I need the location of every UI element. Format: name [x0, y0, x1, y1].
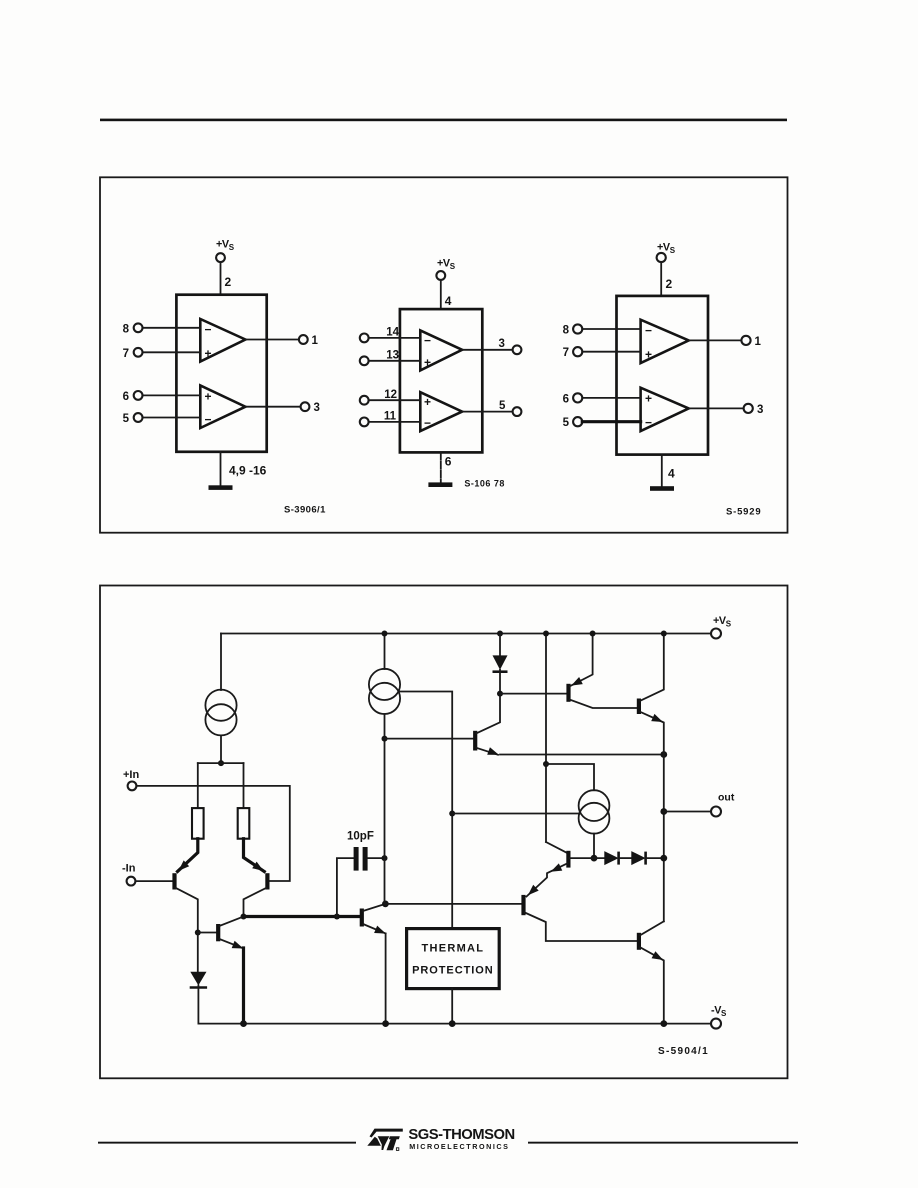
wire pin 5 to A2 inverting input: [143, 417, 201, 419]
node: Q3 emitter on rail: [240, 1020, 247, 1027]
node: I3 on diode string: [591, 855, 598, 862]
node: on output column: [660, 751, 667, 758]
ground (diagram 3): [650, 486, 674, 491]
arrow Q1 emitter: [176, 860, 189, 873]
svg-text:14: 14: [386, 327, 399, 339]
svg-text:1: 1: [755, 336, 762, 348]
svg-text:−: −: [205, 413, 212, 427]
svg-text:4: 4: [668, 467, 675, 481]
wire +In to Q2 base (over the top): [136, 786, 289, 881]
transistor T7 base bar: [521, 895, 525, 915]
arrow T3 emitter: [487, 747, 500, 758]
pin 3 terminal: [744, 404, 753, 413]
resistor R2: [238, 808, 250, 839]
wire T7 collector to T8 base: [525, 913, 637, 942]
pin 5 terminal: [134, 413, 143, 422]
svg-text:−: −: [645, 416, 652, 430]
wire Q2 collector: [244, 888, 267, 917]
pin 12 terminal: [360, 396, 369, 405]
current source I3: [579, 790, 610, 821]
pin 7 terminal: [573, 347, 582, 356]
wire out: [664, 811, 712, 813]
terminal +Vs: [711, 629, 721, 639]
wire T3 collector: [476, 694, 500, 734]
wire R2 to Q2 emitter: [244, 839, 265, 872]
wire T8 emitter to rail: [640, 947, 664, 1023]
wire Q3 collector: [219, 917, 243, 927]
svg-text:3: 3: [499, 338, 505, 350]
node: Q4 collector: [382, 901, 389, 908]
wire T5 collector to T9 base: [570, 700, 637, 708]
svg-text:+: +: [424, 395, 431, 409]
svg-text:-In: -In: [122, 863, 136, 875]
svg-text:S-3906/1: S-3906/1: [284, 505, 326, 516]
svg-text:+: +: [645, 348, 652, 362]
wire Q3 emitter to -Vs rail (bold): [242, 948, 245, 1024]
svg-text:+: +: [205, 390, 212, 404]
wire pin 12 to B2 non-inverting input: [369, 399, 421, 401]
wire Q4 collector to T7 base: [385, 903, 521, 905]
node: C1 on Q4 collector line: [382, 855, 388, 861]
capacitor C1 10pF: [354, 847, 359, 871]
node: Q2 collector / Q3 collector: [241, 914, 247, 920]
svg-text:2: 2: [666, 277, 673, 291]
transistor Q1 base bar: [172, 873, 176, 889]
transistor Q3 base bar: [216, 924, 220, 941]
diode D2: [604, 851, 618, 865]
package outline (diagram 1): [176, 295, 266, 452]
wire pin 8 to A1 inverting input: [143, 327, 201, 329]
pin 5 terminal: [573, 417, 582, 426]
transistor T3 base bar: [473, 731, 477, 751]
footer rule right: [528, 1142, 798, 1144]
node: T3 base tap: [382, 736, 388, 742]
wire T3 emitter: [476, 748, 498, 755]
svg-text:6: 6: [563, 393, 569, 405]
wire pin 6 to C2 non-inverting input: [582, 397, 640, 399]
wire pin 6 to A2 non-inverting input: [143, 394, 201, 396]
pin 11 terminal: [360, 418, 369, 427]
wire thermal box to rail: [451, 989, 453, 1024]
transistor Q2 base bar: [265, 873, 269, 889]
wire -In to Q1 base: [135, 880, 172, 882]
op-amp A2 (diagram 1): [200, 385, 245, 428]
wire Q4 collector: [363, 904, 385, 911]
svg-text:out: out: [718, 792, 735, 804]
svg-text:−: −: [645, 323, 652, 337]
op-amp A1 (diagram 1): [200, 319, 245, 362]
svg-text:13: 13: [386, 349, 399, 361]
svg-text:THERMAL: THERMAL: [421, 943, 484, 955]
node: T8 emitter on rail: [660, 1020, 667, 1027]
arrow T5 emitter: [569, 677, 582, 689]
wire B1 output to pin 3: [462, 349, 513, 351]
terminal +Vs (diagram 3): [657, 253, 666, 262]
transistor T5 base bar: [566, 684, 570, 702]
terminal +In: [128, 782, 137, 791]
footer rule left: [98, 1142, 356, 1144]
wire +Vs to package top: [440, 280, 442, 309]
node: Q4 emitter on rail: [382, 1020, 389, 1027]
wire pin 11 to B2 inverting input: [369, 421, 421, 423]
svg-text:SGS-THOMSON: SGS-THOMSON: [408, 1127, 514, 1143]
svg-text:-VS: -VS: [711, 1005, 727, 1018]
node: thermal column / I3 feed: [449, 811, 455, 817]
op-amp B1 (diagram 2): [420, 330, 462, 370]
wire T3 emitter rail to output column: [500, 754, 664, 756]
op-amp C2 (diagram 3): [641, 388, 689, 431]
svg-text:+: +: [645, 391, 652, 405]
svg-text:+VS: +VS: [437, 258, 456, 271]
svg-text:+: +: [205, 347, 212, 361]
ground (diagram 2): [428, 482, 452, 487]
wire package bottom to ground: [220, 452, 222, 486]
wire Q4 emitter to rail: [385, 934, 387, 1024]
wire D2 to D3: [619, 857, 632, 859]
pin 1 terminal: [299, 335, 308, 344]
wire D3 to output column: [646, 857, 664, 859]
terminal +Vs (diagram 2): [436, 271, 445, 280]
wire +Vs rail to D1: [499, 634, 501, 656]
pin 6 terminal: [134, 391, 143, 400]
current source I1: [205, 690, 236, 721]
node: D1 cathode / T5 base: [497, 691, 503, 697]
op-amp C1 (diagram 3): [641, 320, 689, 363]
wire T6 emitter to T7 emitter: [527, 864, 568, 897]
wire C2 output to pin 3: [689, 407, 744, 409]
wire C1 left leg: [337, 858, 355, 916]
pin 3 terminal: [301, 402, 310, 411]
transistor Q4 base bar: [360, 909, 364, 927]
wire Q1 collector: [176, 888, 198, 972]
node: diode string on output column: [660, 855, 667, 862]
top rule: [100, 119, 787, 122]
transistor T9 base bar: [637, 699, 641, 715]
svg-text:+In: +In: [123, 769, 139, 781]
terminal -Vs: [711, 1019, 721, 1029]
diode D4: [190, 972, 206, 986]
wire pin 14 to B1 inverting input: [369, 337, 421, 339]
wire tail to R1: [197, 763, 199, 808]
node: T9 collector on rail: [661, 631, 667, 637]
node: D1 on +Vs rail: [497, 631, 503, 637]
node: thermal on rail: [449, 1020, 456, 1027]
wire T9 emitter down output column: [640, 712, 664, 922]
terminal +Vs (diagram 1): [216, 253, 225, 262]
svg-text:+VS: +VS: [216, 239, 235, 252]
package outline (diagram 3): [617, 296, 709, 455]
wire from +Vs rail down to current source I1: [220, 634, 222, 691]
wire T5 emitter to +Vs: [570, 634, 593, 687]
diode D1: [493, 655, 508, 669]
wire package bottom to ground: [440, 452, 442, 482]
svg-text:5: 5: [563, 417, 570, 429]
wire Q4 emitter: [363, 924, 386, 934]
pin 8 terminal: [573, 324, 582, 333]
wire +Vs rail down to current source I2: [384, 634, 386, 670]
svg-text:MICROELECTRONICS: MICROELECTRONICS: [409, 1142, 509, 1151]
svg-text:1: 1: [312, 335, 319, 347]
transistor T8 base bar: [637, 933, 641, 950]
wire Q3 emitter: [219, 939, 243, 949]
node: T5 emitter on rail: [590, 631, 596, 637]
transistor T6 base bar: [566, 851, 570, 868]
diode D3: [631, 851, 645, 865]
wire T3 base: [385, 738, 474, 740]
op-amp B2 (diagram 2): [420, 392, 462, 431]
wire pin 7 to C1 non-inverting input: [582, 351, 640, 353]
wire T6 collector diagonal: [546, 842, 567, 853]
node: Q1 collector / Q3 base: [195, 930, 201, 936]
node: T6 column on rail: [543, 631, 549, 637]
wire I3 to diode string: [593, 834, 595, 859]
node: I2 on +Vs rail: [382, 631, 388, 637]
wire pin 7 to A1 non-inverting input: [143, 351, 201, 353]
svg-text:4: 4: [445, 294, 452, 308]
pin 8 terminal: [134, 323, 143, 332]
arrow T6 emitter: [549, 863, 562, 875]
svg-text:6: 6: [123, 391, 129, 403]
pin 14 terminal: [360, 334, 369, 343]
pin 6 terminal: [573, 393, 582, 402]
arrow T7 emitter: [525, 885, 539, 898]
svg-text:3: 3: [314, 402, 320, 414]
package outline (diagram 2): [400, 309, 482, 452]
wire R1 to Q1 emitter: [178, 839, 198, 872]
node: I3 feed tap: [543, 761, 549, 767]
wire D4 to rail: [197, 985, 199, 1023]
arrow Q2 emitter: [252, 862, 266, 875]
wire pin 13 to B1 non-inverting input: [369, 360, 421, 362]
wire +Vs to package top: [660, 262, 662, 296]
svg-text:8: 8: [123, 323, 130, 335]
svg-text:4,9 -16: 4,9 -16: [229, 464, 267, 478]
wire T9 collector to +Vs: [640, 634, 664, 701]
svg-text:−: −: [424, 333, 431, 347]
svg-text:2: 2: [225, 275, 232, 289]
wire T6 base / diode string: [570, 857, 605, 859]
frame: schematic diagram: [100, 586, 788, 1079]
wire I2 down to Q4 collector: [384, 714, 386, 904]
svg-text:7: 7: [563, 347, 569, 359]
svg-text:−: −: [205, 323, 212, 337]
node: tail junction: [218, 760, 224, 766]
wire tail to R2: [243, 763, 245, 808]
svg-text:11: 11: [384, 411, 397, 423]
pin 13 terminal: [360, 356, 369, 365]
svg-text:6: 6: [445, 455, 452, 469]
svg-text:12: 12: [384, 389, 397, 401]
wire +Vs rail down (T6 collector column): [545, 634, 547, 843]
wire A1 output to pin 1: [245, 339, 299, 341]
svg-text:S-5904/1: S-5904/1: [658, 1046, 709, 1057]
wire -Vs bottom rail: [198, 1023, 711, 1025]
svg-text:3: 3: [757, 404, 763, 416]
current source I2: [369, 669, 400, 700]
arrow T8 emitter: [652, 951, 665, 963]
arrow Q3 emitter: [232, 941, 245, 952]
wire package bottom to ground: [661, 455, 663, 487]
svg-text:PROTECTION: PROTECTION: [412, 965, 494, 977]
wire I1 to tail node: [220, 735, 222, 763]
resistor R1: [192, 808, 204, 839]
svg-text:+: +: [424, 355, 431, 369]
svg-text:S-106 78: S-106 78: [464, 479, 505, 489]
wire D1 to T5 base node: [499, 670, 501, 694]
wire C1 right leg: [368, 857, 385, 859]
pin 7 terminal: [134, 348, 143, 357]
wire collector bus Q2/Q3 to Q4 base (bold): [244, 915, 360, 918]
svg-text:S-5929: S-5929: [726, 507, 761, 518]
svg-text:10pF: 10pF: [347, 831, 374, 843]
wire A2 output to pin 3: [245, 406, 300, 408]
frame: pin connection diagrams: [100, 177, 788, 532]
wire pin 5 to C2 inverting input: [582, 420, 640, 423]
pin 3 terminal: [513, 345, 522, 354]
wire Q3 base: [198, 932, 216, 934]
terminal out: [711, 807, 721, 817]
thermal protection box: [407, 929, 500, 989]
wire +Vs to package top: [220, 262, 222, 295]
pin 5 terminal: [513, 407, 522, 416]
svg-text:7: 7: [123, 348, 129, 360]
arrow Q4 emitter: [374, 926, 387, 938]
node: out tap on output column: [660, 808, 667, 815]
wire I2 tangent to thermal column: [400, 692, 452, 929]
svg-text:−: −: [424, 416, 431, 430]
arrow T9 emitter: [651, 714, 664, 726]
wire thermal column to I3 (tangent): [452, 813, 578, 815]
ST logo glyph: [367, 1129, 403, 1151]
svg-text:5: 5: [123, 413, 130, 425]
ground (diagram 1): [209, 485, 233, 490]
wire T8 collector: [640, 921, 664, 935]
svg-text:+VS: +VS: [713, 615, 732, 628]
wire +Vs top rail: [221, 633, 711, 635]
wire pin 8 to C1 inverting input: [582, 328, 640, 330]
node: compensation tap: [334, 914, 340, 920]
pin 1 terminal: [741, 336, 750, 345]
svg-text:8: 8: [563, 325, 570, 337]
svg-text:5: 5: [499, 400, 506, 412]
wire T5 base: [500, 693, 566, 695]
wire tap to current source I3: [546, 764, 594, 790]
terminal -In: [127, 877, 136, 886]
wire tail bar: [198, 762, 244, 764]
wire B2 output to pin 5: [462, 411, 513, 413]
wire C1 output to pin 1: [689, 339, 742, 341]
